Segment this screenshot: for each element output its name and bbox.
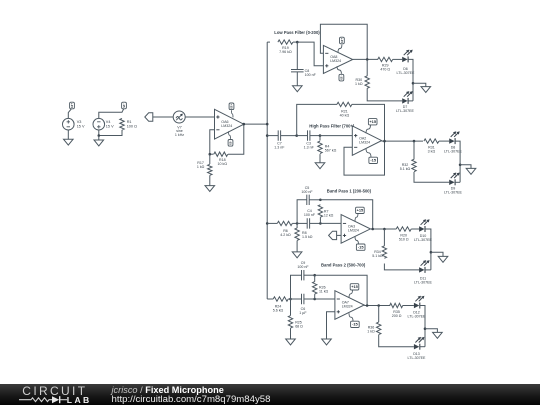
svg-text:D11LTL-307EE: D11LTL-307EE [414,276,433,284]
junction R36 tap [377,304,380,307]
svg-text:R81.5 kΩ: R81.5 kΩ [302,231,313,239]
junction R19/C8 [296,41,299,44]
wire V7 to op-amp [185,116,214,118]
svg-text:C61 µF: C61 µF [299,307,307,315]
resistor R32 [400,141,449,182]
svg-text:D9LTL-307EE: D9LTL-307EE [444,186,463,194]
resistor R4 [318,136,337,154]
wire BP2 feedback to output [315,275,367,305]
capacitor C5 feedback [297,186,320,224]
svg-text:+15: +15 [70,103,74,108]
svg-text:R2140 kΩ: R2140 kΩ [340,109,350,117]
wire D6 cathode [408,59,413,101]
resistor R26 feedback [313,275,329,299]
wire vertical bus [266,42,268,299]
svg-text:R313 kΩ: R313 kΩ [428,145,436,153]
resistor R24 [267,297,290,313]
resistor R25 [288,299,303,328]
net flag +15 at V3 [70,102,75,109]
CircuitLab logo [0,384,110,405]
junction LED mid HPF [459,164,462,167]
svg-text:+15: +15 [340,38,344,43]
capacitor C6 [291,294,315,315]
power flag -15 at OA3 [355,236,365,250]
wire D10 cathode [425,229,431,270]
voltage source V4 [93,118,114,130]
svg-text:Band Pass 1 (200-500): Band Pass 1 (200-500) [327,189,372,194]
svg-text:+15: +15 [357,208,364,213]
wire OA7 + to ground [327,312,335,339]
svg-text:D13LTL-307EE: D13LTL-307EE [408,352,427,360]
wire D12 cathode [420,306,425,347]
wire node B to OA7 - [315,298,335,300]
junction BP2 node A [289,298,292,301]
junction R7 top [319,199,322,202]
svg-text:-15: -15 [370,158,376,163]
svg-text:C9100 nF: C9100 nF [297,261,309,269]
svg-text:-15: -15 [339,76,343,81]
capacitor C9 feedback [291,261,315,299]
svg-text:V415 V: V415 V [106,120,114,128]
LED D10 [414,219,433,242]
junction bus/BP1 [266,222,269,225]
resistor R7 feedback [318,205,333,224]
svg-text:R2568 Ω: R2568 Ω [295,320,303,328]
power flag +15 at OA7 [349,284,359,298]
svg-text:LAB: LAB [67,395,92,405]
power flag +15 at OA2 [366,119,377,134]
wire OA8 output [353,58,378,60]
svg-text:R2611 kΩ: R2611 kΩ [319,285,329,293]
op-amp OA6 [215,109,244,139]
capacitor C4 [297,209,320,229]
net flag input arrow [145,113,153,121]
junction HPF node B [319,134,322,137]
svg-text:-15: -15 [229,141,233,146]
svg-text:V315 V: V315 V [77,120,85,128]
svg-text:-15: -15 [122,103,126,108]
resistor R18 feedback [210,124,244,166]
resistor R35 [390,303,414,318]
svg-text:+15: +15 [351,284,358,289]
svg-text:R1100 Ω: R1100 Ω [127,120,137,128]
wire V4 top to R1 [99,112,122,118]
resistor R6 [267,221,297,237]
wire node to OA8 + [297,42,323,66]
svg-text:R29470 Ω: R29470 Ω [380,64,390,72]
voltage source V3 [63,109,85,130]
junction LED mid LPF [412,82,415,85]
junction OA7 output [366,304,369,307]
LED D8 [444,131,463,153]
svg-text:R20510 Ω: R20510 Ω [399,233,409,241]
svg-text:+15: +15 [369,119,376,124]
op-amp OA8 [323,45,352,73]
junction bus/OA6 [266,123,269,126]
power flag +15 at OA8 [338,37,344,52]
voltage source V7 sine [173,111,185,137]
LED D7 [396,91,415,113]
svg-text:C5100 nF: C5100 nF [301,186,313,194]
wire flag to V7 [153,116,174,118]
svg-text:Low Pass Filter (0-200): Low Pass Filter (0-200) [274,30,320,35]
svg-text:V7sine1 kHz: V7sine1 kHz [175,125,184,137]
resistor R34 [372,229,419,270]
svg-text:R325.1 kΩ: R325.1 kΩ [400,163,411,171]
junction BP1 node A [296,222,299,225]
resistor R29 [378,57,403,71]
junction R32 tap [413,140,416,143]
footer bar [0,384,540,405]
power flag -15 at OA6 [228,131,233,146]
ground at V3 [64,130,74,145]
svg-text:-15: -15 [358,245,364,250]
svg-text:R712 kΩ: R712 kΩ [324,209,334,217]
svg-text:High Pass Filter (700+): High Pass Filter (700+) [309,124,355,129]
svg-text:R361 kΩ: R361 kΩ [367,326,375,334]
wire OA7 output [364,305,390,307]
wire V4/R1 bottom [99,130,122,136]
resistor R19 [267,40,297,54]
svg-text:R301 kΩ: R301 kΩ [355,78,363,86]
junction R17/R18 [209,153,212,156]
svg-text:R1810 kΩ: R1810 kΩ [218,158,228,166]
svg-text:D12LTL-307EE: D12LTL-307EE [408,311,427,319]
junction LED mid BP1 [430,251,433,254]
wire OA2 output [382,140,423,142]
resistor R20 [396,227,419,242]
ground at R8 [292,241,302,258]
junction HPF node A [295,134,298,137]
ground at V4 [94,136,104,146]
svg-text:C71.3 nF: C71.3 nF [274,142,285,150]
wire OA6 inverting input feedback [210,130,215,154]
ground at R4 [315,154,325,169]
power flag -15 at OA2 [366,148,378,163]
op-amp OA7 [335,291,364,320]
svg-text:D7LTL-307EE: D7LTL-307EE [396,105,415,113]
LED D6 [397,50,416,75]
capacitor C8 [291,42,317,77]
ground at R25 [286,328,296,345]
power flag -15 at OA7 [349,313,359,327]
LED D13 [408,337,427,360]
net flag arrow at OA3 + [329,231,342,239]
svg-text:C31.3 nF: C31.3 nF [304,142,315,150]
svg-text:R35200 Ω: R35200 Ω [392,310,402,318]
svg-text:R171 kΩ: R171 kΩ [197,161,205,169]
power flag -15 at OA8 [337,66,344,81]
net flag -15 at R1 top [122,102,127,112]
resistor R21 feedback [297,102,385,141]
svg-text:D6LTL-307EE: D6LTL-307EE [397,67,416,75]
ground at C8 [293,72,303,92]
svg-text:-15: -15 [352,322,358,327]
junction OA2 output [383,140,386,143]
svg-text:Band Pass 2 (500-700): Band Pass 2 (500-700) [321,262,366,267]
svg-text:D10LTL-307EE: D10LTL-307EE [414,234,433,242]
capacitor C3 [297,130,320,149]
junction BP1 node B [319,222,322,225]
junction OA8 output [366,58,369,61]
wire OA2 inverting feedback loop [344,141,385,175]
svg-text:C4100 nF: C4100 nF [304,209,316,217]
svg-text:+15: +15 [230,104,234,109]
power flag +15 at OA3 [355,207,364,221]
op-amp OA2 [352,126,381,155]
wire BP1 feedback to output [320,200,372,229]
svg-text:R4567 kΩ: R4567 kΩ [325,145,337,153]
junction R34 tap [383,228,386,231]
junction bus/HPF [266,134,269,137]
ground at BP2 LEDs [425,329,442,339]
junction LED mid BP2 [424,327,427,330]
ground at R17 [205,175,215,191]
power flag +15 at OA6 [229,103,234,117]
ground at HPF LEDs [460,165,476,175]
resistor R8 [295,223,313,240]
wire OA6 output [244,123,267,125]
wire D8 cathode [455,141,460,182]
capacitor C7 [267,130,297,149]
resistor R30 [355,59,402,101]
resistor R1 [120,118,137,130]
junction V4 bottom [98,134,101,137]
ground at BP1 LEDs [431,252,448,262]
svg-text:R64.2 kΩ: R64.2 kΩ [280,229,291,237]
svg-text:R197.96 kΩ: R197.96 kΩ [279,46,292,54]
wire node B to OA2 + [320,135,352,137]
wire node B to OA3 - [320,222,341,224]
junction BP2 node B [313,298,316,301]
ground at OA7 + [322,339,332,345]
wire OA8 feedback loop [320,24,367,59]
footer text [112,386,271,405]
ground at LPF LEDs [413,83,431,92]
svg-text:C8100 nF: C8100 nF [305,69,317,77]
junction OA6 output [243,123,246,126]
op-amp OA3 [341,215,370,244]
LED D11 [414,260,433,284]
LED D9 [444,173,463,195]
resistor R17 [197,154,212,175]
resistor R31 [424,139,449,153]
junction OA3 output [371,228,374,231]
svg-text:R245.6 kΩ: R245.6 kΩ [273,305,284,313]
resistor R36 [367,306,414,347]
wire OA3 output [370,228,396,230]
junction R26 top [313,274,316,277]
LED D12 [408,296,427,319]
